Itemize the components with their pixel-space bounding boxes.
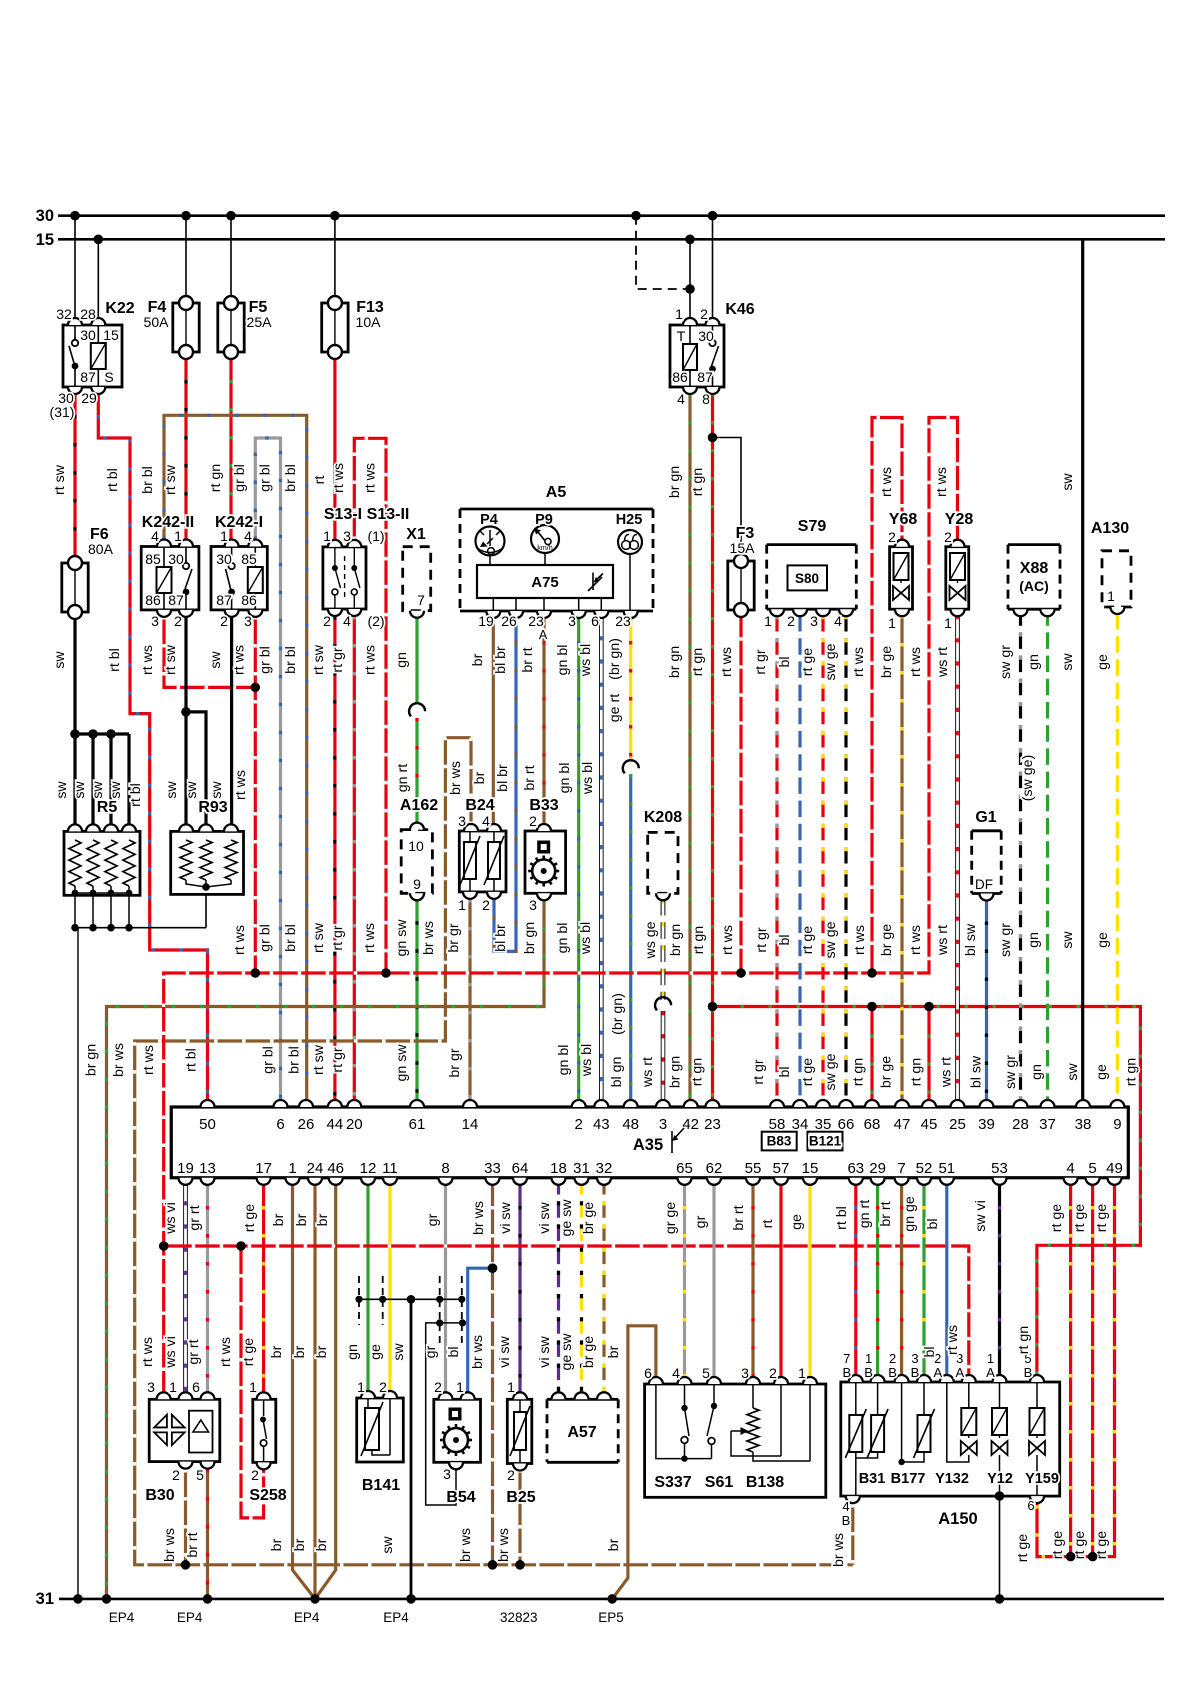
wire rt ws S13 pin3 loop to bus <box>354 438 386 973</box>
pin A150 4B <box>846 1496 860 1503</box>
svg-text:B: B <box>888 1365 897 1380</box>
svg-text:3: 3 <box>244 613 252 629</box>
svg-text:48: 48 <box>622 1116 639 1133</box>
svg-text:S13-II: S13-II <box>367 506 410 523</box>
svg-text:6: 6 <box>591 613 599 629</box>
wire gr A35 pin8 to B54 pin2 <box>444 1178 447 1399</box>
wire br rt A5 pin23A to B33 pin2 <box>542 613 545 831</box>
wire br rt A35 pin7 to A150 pin2B <box>900 1178 903 1382</box>
svg-text:gr: gr <box>423 1345 439 1358</box>
A150 pin designators <box>842 1351 1032 1380</box>
wire bus30 to F13 <box>334 216 336 303</box>
svg-text:bl: bl <box>922 1346 938 1357</box>
svg-text:B: B <box>842 1513 851 1528</box>
sensor unit S79 <box>767 545 857 610</box>
node rt ws/S258 branch <box>236 1241 246 1251</box>
pins S337 S61 B138 <box>649 1377 817 1384</box>
A150 bottom pin designators <box>842 1498 1035 1528</box>
svg-text:30: 30 <box>36 207 54 225</box>
S13-I internal switch <box>332 547 341 609</box>
svg-text:rt ge: rt ge <box>1050 1531 1066 1559</box>
S258 internal switch <box>260 1399 267 1462</box>
svg-text:rt ws: rt ws <box>851 647 867 677</box>
svg-text:rt ws: rt ws <box>140 1337 156 1367</box>
svg-text:ge: ge <box>368 1344 384 1360</box>
svg-text:rt gr: rt gr <box>330 1047 346 1072</box>
svg-text:gr bl: gr bl <box>258 464 274 492</box>
wire rt gn stub to A35 pin45 <box>927 1007 930 1108</box>
svg-text:gr rt: gr rt <box>186 1339 202 1364</box>
svg-text:gr bl: gr bl <box>260 1046 276 1074</box>
pin G1 DF <box>980 894 994 901</box>
svg-text:vi sw: vi sw <box>497 1335 513 1367</box>
svg-text:K46: K46 <box>725 301 754 318</box>
svg-text:B177: B177 <box>891 1471 926 1487</box>
svg-text:rt ws: rt ws <box>719 647 735 677</box>
glow plugs R93 <box>171 831 244 894</box>
glow plugs R5 <box>64 831 140 895</box>
svg-text:ge: ge <box>789 1214 805 1230</box>
svg-text:br: br <box>470 653 486 666</box>
K242-II internal switch <box>183 547 192 610</box>
switch S258 <box>253 1399 276 1462</box>
svg-text:3: 3 <box>659 1116 667 1133</box>
fuse F13 <box>322 296 348 359</box>
svg-text:gn ge: gn ge <box>902 1196 918 1232</box>
B24 thermistor 1 <box>460 831 480 892</box>
pins Y68 <box>895 540 909 617</box>
wire ws rt Y28 pin1 to A35 pin25 <box>955 615 960 1107</box>
svg-text:bl: bl <box>777 934 793 945</box>
svg-text:br gn: br gn <box>522 922 538 954</box>
svg-text:br ws: br ws <box>448 761 464 795</box>
svg-text:sw: sw <box>1060 653 1076 671</box>
svg-text:(br gn): (br gn) <box>607 638 623 680</box>
connector A130 <box>1102 551 1131 607</box>
svg-text:P9: P9 <box>535 512 553 528</box>
svg-text:2: 2 <box>787 613 795 629</box>
svg-text:br ws: br ws <box>162 1528 178 1562</box>
svg-text:15: 15 <box>802 1160 819 1177</box>
wire rt ws branch to S258 pin2 <box>241 1246 264 1518</box>
svg-text:38: 38 <box>1075 1116 1092 1133</box>
svg-text:ge rt: ge rt <box>607 694 623 722</box>
svg-text:rt ge: rt ge <box>1015 1534 1031 1562</box>
svg-text:S258: S258 <box>249 1487 286 1504</box>
node rt ge 1 <box>1066 1552 1076 1562</box>
svg-text:B141: B141 <box>362 1477 400 1494</box>
svg-text:rt gn: rt gn <box>1123 1058 1139 1086</box>
B33 sensor symbol <box>528 841 559 887</box>
wire rt ge A35 pin49 to Y159 <box>1037 1178 1115 1557</box>
wire gn rt A35 pin29 to A150 pin1B <box>876 1178 879 1382</box>
wire br A35 pin24 to ground <box>313 1178 316 1599</box>
wire rt sw K22-87 to F6 <box>73 387 76 563</box>
svg-text:B: B <box>864 1365 873 1380</box>
generator G1 <box>972 831 1002 894</box>
splice ws ge/ws rt <box>653 995 672 1011</box>
connector B83 inside A35 <box>762 1132 797 1151</box>
svg-text:3: 3 <box>147 1379 155 1395</box>
svg-text:B31: B31 <box>859 1471 886 1487</box>
svg-text:9: 9 <box>1113 1116 1121 1133</box>
R93 resistor elements <box>180 840 237 887</box>
svg-text:ge sw: ge sw <box>559 1333 575 1371</box>
svg-text:28: 28 <box>1012 1116 1029 1133</box>
svg-text:br ge: br ge <box>878 1056 894 1088</box>
svg-text:EP4: EP4 <box>383 1610 409 1625</box>
svg-text:5: 5 <box>702 1365 710 1381</box>
svg-text:rt gr: rt gr <box>330 925 346 950</box>
fuse F5 <box>218 296 244 359</box>
svg-text:br: br <box>292 1538 308 1551</box>
splice ge rt/bl gn <box>621 758 640 774</box>
svg-text:br ws: br ws <box>458 1528 474 1562</box>
dashed branch bus30 to K46 pin1 <box>636 216 687 289</box>
wire rt sw S13 pin2 to A35 pin44 <box>333 616 336 1107</box>
wire rt ws F3 to bus <box>739 609 742 973</box>
node R5 gnd 1 <box>71 924 79 932</box>
B24 thermistor 2 <box>484 831 504 892</box>
wire br ge Y68 pin1 to A35 pin47 <box>900 615 903 1107</box>
node br ws bus/pin33 wire <box>488 1560 498 1570</box>
svg-text:rt gn: rt gn <box>851 1058 867 1086</box>
wire rt gr S79 pin1 to A35 pin58 <box>775 615 778 1107</box>
svg-text:gn: gn <box>394 652 410 668</box>
wire labels row C2 <box>84 993 656 1088</box>
svg-text:2: 2 <box>700 306 708 322</box>
switch S13-I/S13-II <box>323 547 366 609</box>
svg-text:gn bl: gn bl <box>555 923 571 954</box>
svg-text:1: 1 <box>357 1379 365 1395</box>
svg-text:87: 87 <box>80 369 96 385</box>
svg-text:64: 64 <box>512 1160 529 1177</box>
svg-text:49: 49 <box>1106 1160 1123 1177</box>
node bus31/R5 <box>73 1594 83 1604</box>
wire rt ws bus to A150 pin3A <box>164 1246 969 1382</box>
svg-text:gn: gn <box>1026 932 1042 948</box>
svg-text:52: 52 <box>916 1160 933 1177</box>
svg-text:A: A <box>539 628 548 642</box>
svg-text:1: 1 <box>249 1379 257 1395</box>
svg-text:ws rt: ws rt <box>935 925 951 956</box>
svg-text:vi sw: vi sw <box>537 1335 553 1367</box>
svg-text:(br gn): (br gn) <box>610 993 626 1035</box>
node K46 pin8 branch <box>708 433 718 443</box>
svg-text:rt ge: rt ge <box>1049 1204 1065 1232</box>
svg-text:vi sw: vi sw <box>537 1201 553 1233</box>
svg-text:51: 51 <box>938 1160 955 1177</box>
wire sw to R5 pin3 <box>109 734 112 831</box>
wire rt bl K22-29 to A35 pin50 <box>98 387 207 1107</box>
crankshaft sensor B33 <box>525 831 566 893</box>
wire br ws B24 pin3 loop to bottom bus <box>135 738 853 1565</box>
svg-text:rt ge: rt ge <box>1094 1204 1110 1232</box>
svg-text:S61: S61 <box>705 1474 734 1491</box>
svg-text:2: 2 <box>434 1379 442 1395</box>
svg-text:3: 3 <box>529 897 537 913</box>
pin A130-1 <box>1110 607 1124 614</box>
svg-text:rt ws: rt ws <box>232 925 248 955</box>
node bus30/K46 pin2 <box>708 211 718 221</box>
speedometer P9 <box>531 525 559 553</box>
svg-text:3: 3 <box>443 1466 451 1482</box>
wire gn ge A35 pin52 to A150 pin3B <box>922 1178 925 1382</box>
svg-text:23: 23 <box>704 1116 721 1133</box>
svg-text:A130: A130 <box>1091 520 1129 537</box>
svg-text:B138: B138 <box>746 1474 784 1491</box>
pin K208 <box>656 893 670 900</box>
S61 internal switch <box>707 1384 717 1459</box>
solenoid valve Y68 <box>890 547 913 610</box>
shield connection line <box>359 1298 462 1300</box>
node bus31/br gn EP4 <box>102 1594 112 1604</box>
svg-text:gr ge: gr ge <box>663 1202 679 1234</box>
svg-text:ge sw: ge sw <box>559 1199 575 1237</box>
pins R93 <box>179 824 238 831</box>
wire rt gn F5 to K242-I pin1 <box>229 352 232 540</box>
svg-text:rt bl: rt bl <box>107 648 123 672</box>
svg-text:rt gn: rt gn <box>690 1058 706 1086</box>
svg-text:ws ge: ws ge <box>643 921 659 959</box>
K46 internal coil <box>683 325 697 387</box>
svg-text:sw: sw <box>1060 931 1076 949</box>
svg-text:sw: sw <box>184 781 200 799</box>
svg-text:br: br <box>269 1345 285 1358</box>
svg-text:45: 45 <box>921 1116 938 1133</box>
svg-text:85: 85 <box>145 551 161 567</box>
svg-text:br gr: br gr <box>446 923 462 952</box>
svg-text:3: 3 <box>458 813 466 829</box>
S337 internal switch <box>681 1384 689 1459</box>
svg-text:gr bl: gr bl <box>258 646 274 674</box>
node bus15/K46 <box>685 235 695 245</box>
wire rt ws K242-I pin3 to bus <box>254 616 257 973</box>
wire br gn B33 pin3 to ground <box>107 899 545 1599</box>
svg-text:br gn: br gn <box>667 646 683 678</box>
pins K22 <box>68 318 105 394</box>
S79 pin numbers <box>764 613 842 629</box>
svg-text:X88: X88 <box>1020 560 1049 577</box>
control unit A57 <box>547 1399 618 1462</box>
svg-text:19: 19 <box>177 1160 194 1177</box>
svg-text:2: 2 <box>220 613 228 629</box>
svg-text:vi sw: vi sw <box>498 1201 514 1233</box>
wire gr bl K242-I pin4 to A35 pin6 <box>255 438 280 1107</box>
pins S13 <box>328 540 361 616</box>
svg-text:rt bl: rt bl <box>105 468 121 492</box>
svg-text:29: 29 <box>869 1160 886 1177</box>
B138 potentiometer <box>731 1384 810 1461</box>
svg-text:62: 62 <box>706 1160 723 1177</box>
K242-II internal coil <box>157 547 172 610</box>
svg-text:br ge: br ge <box>879 646 895 678</box>
svg-text:30: 30 <box>698 328 714 344</box>
pins A5 <box>486 611 637 618</box>
node sw R93 branch <box>181 707 191 717</box>
svg-text:53: 53 <box>991 1160 1008 1177</box>
wire gn sw A162 pin9 to A35 pin61 <box>415 893 418 1107</box>
wire br rt A35 pin55 to B138 pin3 <box>751 1178 754 1383</box>
svg-text:57: 57 <box>773 1160 790 1177</box>
svg-text:br ws: br ws <box>421 921 437 955</box>
svg-text:39: 39 <box>978 1116 995 1133</box>
svg-text:2: 2 <box>174 613 182 629</box>
node dashed/K46 junction <box>685 284 695 294</box>
svg-text:br: br <box>606 1345 622 1358</box>
svg-text:B30: B30 <box>145 1487 174 1504</box>
svg-text:bl br: bl br <box>493 646 509 674</box>
svg-text:ws bl: ws bl <box>578 644 594 677</box>
svg-text:2: 2 <box>379 1379 387 1395</box>
svg-text:Y12: Y12 <box>987 1471 1013 1487</box>
connector X1 <box>403 547 431 611</box>
svg-text:4: 4 <box>343 613 351 629</box>
svg-text:15: 15 <box>103 327 119 343</box>
temperature sensor B141 <box>357 1398 404 1462</box>
wire bus15 to K46 pin1 <box>689 239 691 325</box>
svg-text:B121: B121 <box>809 1134 842 1149</box>
K242-I internal switch <box>226 547 235 610</box>
wire sw ge S79 pin4 to A35 pin66 <box>844 615 847 1107</box>
svg-text:bl: bl <box>777 1066 793 1077</box>
wire branch K46 pin8 to F3 <box>713 438 742 562</box>
svg-text:1: 1 <box>169 1379 177 1395</box>
svg-text:rt sw: rt sw <box>52 464 68 495</box>
svg-text:gn sw: gn sw <box>394 1044 410 1082</box>
svg-text:61: 61 <box>409 1116 426 1133</box>
Y28 valve symbol <box>950 553 966 600</box>
svg-text:26: 26 <box>501 613 517 629</box>
wire ge A35 pin15 to B138 pin1 <box>808 1178 811 1383</box>
node rt gn/pin68 <box>867 1002 877 1012</box>
svg-text:42: 42 <box>682 1116 699 1133</box>
svg-text:(AC): (AC) <box>1019 578 1049 594</box>
svg-text:65: 65 <box>676 1160 693 1177</box>
svg-text:B: B <box>842 1365 851 1380</box>
node S337 rail <box>681 1455 687 1461</box>
svg-text:br gn: br gn <box>668 1056 684 1088</box>
solenoid valve Y28 <box>946 547 969 610</box>
svg-text:EP4: EP4 <box>109 1610 135 1625</box>
svg-text:A: A <box>986 1365 995 1380</box>
wire rt F13 to S13-I pin1 <box>333 352 336 540</box>
speed sensor B54 <box>434 1399 481 1462</box>
svg-text:6: 6 <box>644 1365 652 1381</box>
svg-text:1: 1 <box>220 528 228 544</box>
wire bl br A5 pin26 to B24 pin2 <box>494 613 516 951</box>
svg-text:4: 4 <box>482 813 490 829</box>
svg-text:10A: 10A <box>356 314 382 330</box>
svg-text:86: 86 <box>241 592 257 608</box>
svg-text:4: 4 <box>244 528 252 544</box>
fuse F6 <box>62 556 88 619</box>
svg-text:br gn: br gn <box>668 924 684 956</box>
wire rt ws K242-II pin3 <box>164 616 255 687</box>
svg-text:4: 4 <box>151 528 159 544</box>
wire br gr B24 pin1 to A35 pin14 <box>468 899 471 1107</box>
svg-text:B54: B54 <box>446 1489 475 1506</box>
node bus30/dashed <box>631 211 641 221</box>
wire bl sw G1 DF to A35 pin39 <box>985 894 988 1108</box>
svg-text:Y159: Y159 <box>1025 1471 1059 1487</box>
svg-text:6: 6 <box>192 1379 200 1395</box>
svg-text:7: 7 <box>897 1160 905 1177</box>
svg-text:rt ge: rt ge <box>800 1058 816 1086</box>
wire labels glow plug rows <box>54 770 249 807</box>
svg-text:58: 58 <box>769 1116 786 1133</box>
svg-text:br ws: br ws <box>471 1201 487 1235</box>
A35 bottom pin numbers <box>177 1160 1123 1177</box>
wire labels mid row <box>395 755 1036 802</box>
B30 fan symbol <box>152 1412 187 1447</box>
svg-text:(31): (31) <box>50 404 75 420</box>
wire gn rt to A162 pin10 <box>415 718 418 830</box>
svg-text:gn: gn <box>1026 654 1042 670</box>
svg-text:rt ge: rt ge <box>242 1204 258 1232</box>
svg-text:ws rt: ws rt <box>640 1057 656 1088</box>
svg-text:23: 23 <box>615 613 631 629</box>
svg-text:br: br <box>314 1538 330 1551</box>
wire bus30 to F5 <box>230 216 232 303</box>
pin A150 Y159-6 <box>1030 1496 1044 1503</box>
svg-text:sw ge: sw ge <box>823 1053 839 1090</box>
wire gn X1 pin7 <box>415 613 418 704</box>
svg-text:rt: rt <box>760 1220 776 1229</box>
svg-text:44: 44 <box>327 1116 344 1133</box>
K242-I internal coil <box>248 547 263 610</box>
node shield/B54 pin3 a <box>436 1319 443 1326</box>
shield dashed screen around B141 wires <box>358 1276 360 1325</box>
svg-text:S337: S337 <box>654 1474 691 1491</box>
wire sw to R5 pin2 <box>91 734 94 831</box>
svg-text:68: 68 <box>864 1116 881 1133</box>
svg-text:4: 4 <box>1066 1160 1074 1177</box>
svg-text:1: 1 <box>798 1365 806 1381</box>
svg-text:gn bl: gn bl <box>557 763 573 794</box>
svg-text:32: 32 <box>56 306 72 322</box>
pins B24 <box>463 824 501 899</box>
svg-text:rt gn: rt gn <box>208 464 224 492</box>
node R93 gnd <box>202 883 210 891</box>
svg-text:30: 30 <box>80 327 96 343</box>
svg-text:85: 85 <box>241 551 257 567</box>
wire br S337 pin6 to ground <box>612 1326 656 1599</box>
svg-text:A150: A150 <box>938 1510 977 1528</box>
svg-text:ws rt: ws rt <box>935 647 951 678</box>
wire gn A35 pin12 to B141 pin1 <box>366 1178 369 1399</box>
wire gr ge A35 pin65 to S337 pin4 <box>683 1178 686 1383</box>
svg-text:br: br <box>314 1345 330 1358</box>
svg-text:1: 1 <box>456 1379 464 1395</box>
solenoid valve Y132 <box>947 1382 977 1462</box>
svg-text:rt: rt <box>312 476 328 485</box>
svg-text:14: 14 <box>462 1116 479 1133</box>
svg-text:ge: ge <box>1095 932 1111 948</box>
svg-text:rt ws: rt ws <box>852 925 868 955</box>
svg-text:9: 9 <box>413 876 421 892</box>
svg-text:1: 1 <box>675 306 683 322</box>
node bl/br ws junction <box>488 1263 498 1273</box>
relay K46 <box>670 325 724 387</box>
svg-text:sw: sw <box>380 1536 396 1554</box>
wire sw bus15 to A35 pin38 <box>1081 239 1084 1107</box>
svg-text:sw: sw <box>72 781 88 799</box>
pins K242-I <box>225 540 263 617</box>
svg-text:K22: K22 <box>105 300 134 317</box>
svg-text:17: 17 <box>255 1160 272 1177</box>
svg-text:3: 3 <box>151 613 159 629</box>
